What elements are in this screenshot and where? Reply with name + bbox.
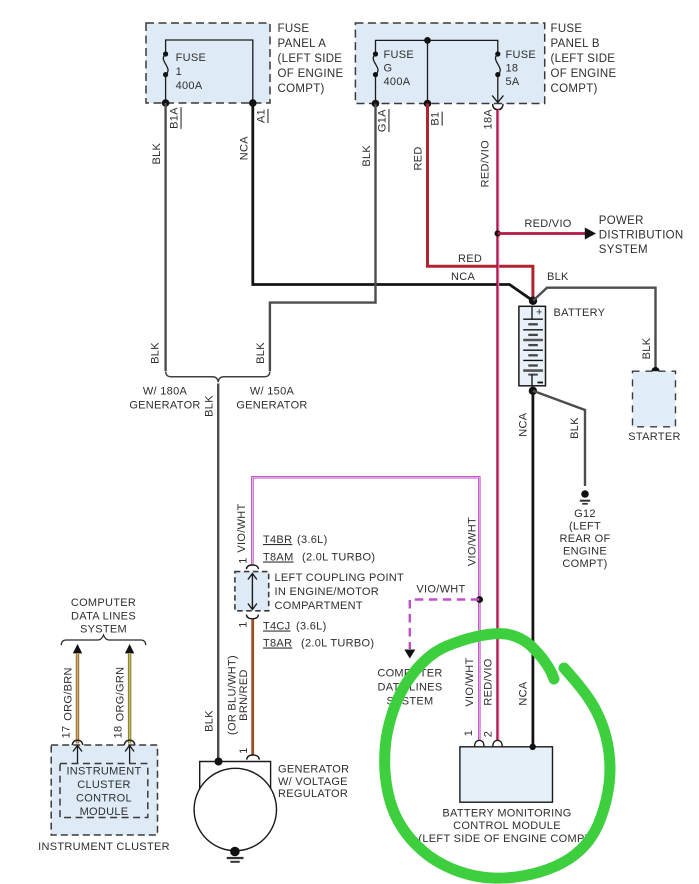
svg-text:G: G xyxy=(384,63,393,75)
svg-text:VIO/WHT: VIO/WHT xyxy=(236,503,248,552)
svg-text:2: 2 xyxy=(483,731,495,737)
arrowhead ORG/BRN xyxy=(73,644,82,653)
svg-text:(2.0L TURBO): (2.0L TURBO) xyxy=(302,552,375,564)
svg-text:OF ENGINE: OF ENGINE xyxy=(551,68,617,80)
svg-text:LEFT COUPLING POINT: LEFT COUPLING POINT xyxy=(275,572,405,584)
svg-text:INSTRUMENT: INSTRUMENT xyxy=(66,766,141,778)
wire RED from fuse panel B to battery xyxy=(428,104,533,301)
svg-text:FUSE: FUSE xyxy=(551,23,583,35)
instrument cluster control module box xyxy=(60,764,148,818)
svg-text:18: 18 xyxy=(113,726,125,739)
svg-text:OF ENGINE: OF ENGINE xyxy=(278,68,344,80)
svg-text:DISTRIBUTION: DISTRIBUTION xyxy=(599,230,684,242)
svg-text:COMPT): COMPT) xyxy=(562,558,607,570)
ground G12 xyxy=(560,490,611,570)
svg-text:T4BR: T4BR xyxy=(263,534,292,546)
svg-text:BLK: BLK xyxy=(361,145,373,167)
arrowhead power distribution xyxy=(585,228,596,240)
svg-text:ORG/BRN: ORG/BRN xyxy=(62,667,74,720)
connector cup pin 17 xyxy=(72,740,83,747)
wire BLK from fuse panel B to generator brace xyxy=(270,104,376,372)
svg-text:1: 1 xyxy=(237,621,249,627)
svg-text:REAR OF: REAR OF xyxy=(560,533,611,545)
svg-text:CLUSTER: CLUSTER xyxy=(77,779,130,791)
svg-text:COMPARTMENT: COMPARTMENT xyxy=(275,600,363,612)
instrument cluster box xyxy=(51,745,157,835)
svg-text:STARTER: STARTER xyxy=(628,431,680,443)
svg-text:T8AM: T8AM xyxy=(263,552,294,564)
svg-text:VIO/WHT: VIO/WHT xyxy=(464,657,476,706)
svg-text:(LEFT SIDE: (LEFT SIDE xyxy=(278,53,343,65)
svg-text:VIO/WHT: VIO/WHT xyxy=(467,517,479,566)
svg-text:GENERATOR: GENERATOR xyxy=(278,764,349,776)
svg-text:W/ 180A: W/ 180A xyxy=(143,386,188,398)
svg-text:W/ 150A: W/ 150A xyxy=(250,386,295,398)
svg-text:18A: 18A xyxy=(482,109,494,130)
svg-text:1: 1 xyxy=(463,730,475,736)
svg-text:400A: 400A xyxy=(384,76,411,88)
svg-text:B1A: B1A xyxy=(169,107,181,129)
svg-text:BATTERY MONITORING: BATTERY MONITORING xyxy=(442,808,571,820)
svg-text:NCA: NCA xyxy=(518,412,530,436)
svg-text:BLK: BLK xyxy=(547,271,569,283)
svg-text:(OR BLU/WHT): (OR BLU/WHT) xyxy=(226,655,238,735)
svg-text:T8AR: T8AR xyxy=(263,638,292,650)
svg-text:BLK: BLK xyxy=(641,337,653,359)
svg-text:COMPT): COMPT) xyxy=(551,83,598,95)
coupling point caption xyxy=(275,572,405,612)
svg-text:(2.0L TURBO): (2.0L TURBO) xyxy=(301,638,374,650)
node B1 junction dot xyxy=(424,100,432,108)
svg-text:BLK: BLK xyxy=(151,142,163,164)
svg-text:VIO/WHT: VIO/WHT xyxy=(416,584,465,596)
fuse 18 output arrowhead xyxy=(492,96,503,103)
dashed wire VIO/WHT to computer data lines xyxy=(410,600,480,650)
svg-text:CONTROL MODULE: CONTROL MODULE xyxy=(453,820,561,832)
svg-text:COMPT): COMPT) xyxy=(278,83,325,95)
connector cup pin 18 xyxy=(124,740,135,747)
wire merge brace to generator xyxy=(166,372,270,383)
svg-text:POWER: POWER xyxy=(599,215,644,227)
svg-text:BLK: BLK xyxy=(569,417,581,439)
wire RED/VIO branch to power distribution xyxy=(498,232,586,235)
svg-text:PANEL B: PANEL B xyxy=(551,38,600,50)
svg-text:BRN/RED: BRN/RED xyxy=(238,669,250,721)
green annotation circle xyxy=(385,634,610,878)
svg-text:IN ENGINE/MOTOR: IN ENGINE/MOTOR xyxy=(275,586,380,598)
internal arrow pin 18 xyxy=(125,746,134,764)
fuse F1 xyxy=(163,51,206,103)
svg-text:RED/VIO: RED/VIO xyxy=(479,140,491,187)
svg-text:FUSE: FUSE xyxy=(278,23,310,35)
junction dot VIO/WHT dashed branch xyxy=(476,596,483,603)
coupling point box xyxy=(235,572,269,611)
svg-text:RED: RED xyxy=(458,253,482,265)
svg-text:G1A: G1A xyxy=(376,109,388,132)
svg-text:CONTROL: CONTROL xyxy=(76,793,132,805)
generator connector cup xyxy=(247,755,260,760)
svg-text:RED: RED xyxy=(412,146,424,170)
svg-text:FUSE: FUSE xyxy=(506,49,537,61)
svg-text:BLK: BLK xyxy=(203,395,215,417)
svg-text:18: 18 xyxy=(506,63,519,75)
svg-text:A1: A1 xyxy=(255,109,267,123)
svg-text:1: 1 xyxy=(237,557,249,563)
wire BRN/RED coupling point to generator xyxy=(251,619,254,755)
junction dot RED/VIO branch xyxy=(495,230,501,236)
battery BAT1 xyxy=(519,306,546,386)
svg-text:INSTRUMENT CLUSTER: INSTRUMENT CLUSTER xyxy=(38,841,170,853)
svg-text:GENERATOR: GENERATOR xyxy=(129,400,200,412)
svg-text:ORG/GRN: ORG/GRN xyxy=(115,667,127,722)
generator G1 body xyxy=(194,762,276,851)
generator caption xyxy=(278,764,349,801)
svg-text:G12: G12 xyxy=(574,508,596,520)
battery monitoring module caption xyxy=(418,808,595,845)
battery top junction dot xyxy=(529,297,537,305)
wire ORG/BRN xyxy=(76,653,79,744)
battery monitoring control module box xyxy=(460,747,553,802)
fuse panel B internal bus wire xyxy=(376,40,498,103)
wire ORG/GRN xyxy=(128,653,131,744)
connector cup 18A xyxy=(493,104,503,110)
svg-text:FUSE: FUSE xyxy=(384,49,415,61)
wire BLK battery to ground G12 xyxy=(533,391,585,486)
svg-text:5A: 5A xyxy=(506,76,520,88)
wire NCA battery to module xyxy=(532,391,535,747)
svg-text:RED/VIO: RED/VIO xyxy=(482,658,494,705)
fuse panel B box xyxy=(355,23,544,104)
arrowhead computer data lines xyxy=(404,650,415,659)
svg-text:NCA: NCA xyxy=(518,681,530,705)
svg-text:DATA LINES: DATA LINES xyxy=(71,611,136,623)
svg-text:RED/VIO: RED/VIO xyxy=(524,218,571,230)
svg-text:MODULE: MODULE xyxy=(80,806,129,818)
coupling point internal arrow xyxy=(248,574,257,610)
svg-text:1: 1 xyxy=(238,747,250,753)
internal arrow pin 17 xyxy=(73,746,82,764)
starter box xyxy=(633,371,676,427)
generator junction dot xyxy=(215,758,223,766)
svg-text:GENERATOR: GENERATOR xyxy=(236,400,307,412)
arrowhead ORG/GRN xyxy=(125,644,134,653)
battery bottom junction dot xyxy=(529,387,537,395)
node G1A junction dot xyxy=(372,100,380,108)
fuse panel B caption xyxy=(551,23,617,95)
battery monitoring module connector cup pin 2 xyxy=(493,740,503,746)
svg-text:+: + xyxy=(536,307,543,319)
svg-text:NCA: NCA xyxy=(239,136,251,160)
svg-text:W/ VOLTAGE: W/ VOLTAGE xyxy=(278,776,348,788)
computer data lines system caption left xyxy=(71,597,136,636)
svg-text:(LEFT: (LEFT xyxy=(569,521,601,533)
wire BLK from fuse panel A xyxy=(164,103,166,371)
svg-text:(LEFT SIDE OF ENGINE COMPT): (LEFT SIDE OF ENGINE COMPT) xyxy=(418,833,595,845)
starter junction dot xyxy=(651,367,659,375)
fuse G xyxy=(373,49,414,104)
svg-text:BLK: BLK xyxy=(255,342,267,364)
instrument cluster control module caption xyxy=(66,766,141,819)
wire RED/VIO vertical from fuse 18 to battery monitoring module xyxy=(497,110,498,740)
wire BLK brace to generator xyxy=(217,384,219,762)
svg-text:BLK: BLK xyxy=(149,342,161,364)
svg-text:(3.6L): (3.6L) xyxy=(297,534,328,546)
wire NCA from fuse panel A to battery xyxy=(253,103,533,301)
wire BLK battery to starter xyxy=(533,288,656,372)
svg-text:FUSE: FUSE xyxy=(176,52,207,64)
fuse panel A caption xyxy=(278,23,344,95)
node B1A junction dot xyxy=(162,99,170,107)
svg-text:NCA: NCA xyxy=(451,271,475,283)
wire VIO/WHT coupling point to module xyxy=(252,477,479,740)
svg-text:T4CJ: T4CJ xyxy=(263,621,290,633)
svg-text:1: 1 xyxy=(176,66,182,78)
battery monitoring module connector cup pin 1 xyxy=(475,740,485,746)
svg-text:ENGINE: ENGINE xyxy=(563,546,607,558)
svg-text:17: 17 xyxy=(61,726,73,739)
fuse panel A box xyxy=(146,23,270,103)
svg-text:(3.6L): (3.6L) xyxy=(296,621,327,633)
power distribution system caption xyxy=(599,215,684,256)
coupling point connector cup bottom xyxy=(246,615,258,619)
svg-text:PANEL A: PANEL A xyxy=(278,38,327,50)
svg-text:B1: B1 xyxy=(430,112,442,126)
generator ground xyxy=(227,847,244,862)
svg-text:SYSTEM: SYSTEM xyxy=(599,244,648,256)
fuse panel A internal bus wire xyxy=(166,40,253,103)
bus junction dot xyxy=(424,37,431,44)
brace computer data lines xyxy=(61,635,146,645)
svg-text:BATTERY: BATTERY xyxy=(554,307,606,319)
svg-text:COMPUTER: COMPUTER xyxy=(71,597,136,609)
svg-text:REGULATOR: REGULATOR xyxy=(278,788,348,800)
computer data lines system caption right xyxy=(377,667,442,707)
coupling point connector cup top xyxy=(246,565,258,569)
svg-text:400A: 400A xyxy=(176,80,203,92)
svg-text:(LEFT SIDE: (LEFT SIDE xyxy=(551,53,616,65)
module NCA junction dot xyxy=(530,744,536,750)
fuse 18 xyxy=(495,49,536,102)
node A1 junction dot xyxy=(249,99,257,107)
svg-text:BLK: BLK xyxy=(203,710,215,732)
